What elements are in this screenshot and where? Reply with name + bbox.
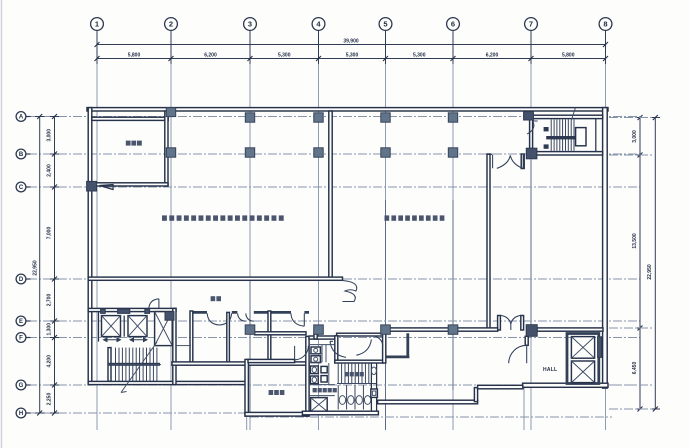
- room row bottom wall: [172, 362, 309, 365]
- svg-text:8: 8: [603, 20, 607, 29]
- core bottom wall: [88, 381, 245, 384]
- hatched shaft X box bottom: [311, 398, 328, 412]
- svg-text:H: H: [19, 411, 23, 417]
- svg-text:2,700: 2,700: [47, 294, 53, 307]
- machine room label 기계실: [126, 141, 142, 146]
- svg-text:5,800: 5,800: [562, 53, 575, 59]
- HALL bottom wall: [523, 383, 608, 387]
- duct oval: [371, 367, 376, 375]
- top overall dimension 39,900: [95, 38, 609, 49]
- TR stair west wall: [530, 119, 533, 149]
- elevator shaft outline: [567, 334, 599, 384]
- entry door arc right: [356, 339, 371, 355]
- svg-text:3,000: 3,000: [47, 129, 53, 142]
- toilet mid partition: [309, 363, 335, 385]
- vestibule top wall: [337, 333, 384, 336]
- elevator 2 sill: [130, 338, 147, 342]
- svg-text:2,250: 2,250: [47, 393, 53, 406]
- room partition east: [268, 311, 271, 363]
- toilet west basins: [311, 347, 320, 363]
- seam wall to core: [176, 345, 191, 347]
- TR stair inner top wall: [533, 115, 603, 118]
- vestibule inner door arc: [373, 336, 383, 347]
- svg-text:6,200: 6,200: [486, 53, 499, 59]
- building bottom wall mid: [378, 400, 478, 404]
- room door arc 3: [291, 313, 304, 326]
- svg-text:6: 6: [451, 20, 455, 29]
- elevator 1 X box: [102, 316, 121, 337]
- svg-text:6,200: 6,200: [204, 53, 217, 59]
- right room west wall: [487, 154, 490, 330]
- svg-text:G: G: [19, 383, 24, 389]
- svg-text:3,000: 3,000: [632, 130, 638, 143]
- TR stair arrow blobs: [544, 127, 549, 131]
- svg-text:22,950: 22,950: [647, 264, 653, 280]
- machine room right wall: [165, 111, 168, 186]
- TR stair mid landing dark bar: [546, 136, 576, 139]
- left segment dimension line: [50, 114, 59, 416]
- F wall mid segment: [458, 328, 498, 331]
- columns row EF: [245, 325, 537, 337]
- machine room bottom wall: [92, 183, 168, 186]
- elevator car upper X box: [571, 337, 594, 359]
- scan edge artifact line: [1, 0, 3, 448]
- HALL door arc: [509, 345, 527, 363]
- svg-text:A: A: [19, 115, 24, 121]
- svg-text:5,300: 5,300: [413, 53, 426, 59]
- F wall west segment: [384, 328, 449, 331]
- svg-text:3: 3: [248, 20, 252, 29]
- bottom wall east segment: [478, 385, 523, 389]
- elevator 1 sill: [104, 338, 121, 342]
- gongjo bottom wall: [245, 412, 309, 416]
- elevator car lower X box: [571, 361, 594, 383]
- room door arc 1: [207, 313, 231, 325]
- svg-text:5,800: 5,800: [128, 53, 141, 59]
- outer wall left: [88, 108, 92, 385]
- step wall vertical stub: [314, 334, 317, 339]
- svg-text:C: C: [19, 185, 24, 191]
- center stair treads: [338, 363, 369, 384]
- elevator door pocket dark bar: [598, 337, 602, 358]
- svg-text:13,500: 13,500: [632, 233, 638, 249]
- svg-text:39,900: 39,900: [343, 38, 359, 44]
- TR stair up arrow tip: [572, 108, 576, 120]
- right extension dash lines: [609, 118, 654, 410]
- room door arcs pair: [238, 313, 254, 321]
- double swing door symbol at D-wall opening: [343, 281, 357, 302]
- svg-text:22,950: 22,950: [33, 260, 39, 276]
- toilet west cluster partitions: [309, 345, 335, 396]
- TR stair landing rail rect: [576, 128, 586, 146]
- columns row B: [166, 148, 537, 159]
- gongjo west wall: [245, 359, 248, 416]
- core stair west rail: [108, 348, 111, 382]
- right segment dimension line 3,000/13,500/6,450: [632, 115, 645, 412]
- core top wall: [88, 308, 176, 311]
- gongjo top wall: [248, 359, 295, 362]
- svg-text:4,200: 4,200: [47, 355, 53, 368]
- svg-text:1: 1: [95, 20, 99, 29]
- elevator 2 X box: [128, 316, 147, 337]
- left overall dimension 22,950: [33, 114, 45, 416]
- machine room door leaf: [100, 185, 114, 190]
- core door arc: [149, 299, 159, 309]
- svg-text:5,300: 5,300: [278, 53, 291, 59]
- machine room door corner block: [87, 181, 97, 191]
- gongjo label 공조실: [269, 390, 285, 395]
- duct small box: [371, 389, 378, 397]
- vestibule west wall: [335, 336, 338, 363]
- toilet west mid fixtures: [310, 366, 318, 384]
- core stair mid dark bar: [108, 363, 160, 366]
- step wall grid4 to vestibule: [309, 336, 337, 339]
- grid bubbles 1-8: [91, 18, 104, 31]
- WC fixtures ovals: [339, 396, 371, 405]
- svg-text:2: 2: [169, 20, 173, 29]
- vertical grid lines 1-8: [97, 31, 606, 431]
- center stair mid line: [337, 383, 376, 385]
- service shaft dark block: [165, 312, 174, 321]
- top segment dimension labels: [128, 53, 575, 59]
- service shaft X box: [155, 312, 173, 346]
- core stair treads: [116, 348, 157, 382]
- stall partitions below stair: [338, 385, 371, 410]
- small room east of vestibule: [386, 333, 410, 357]
- TR stair door arc: [527, 121, 537, 134]
- corridor label 복도: [211, 296, 221, 301]
- columns row A: [166, 108, 533, 123]
- divider wall vertical: [329, 111, 332, 278]
- svg-text:D: D: [19, 277, 24, 283]
- machine room top wall: [92, 117, 168, 120]
- top segment dimension line: [95, 54, 609, 64]
- toilet block bottom wall: [302, 411, 378, 415]
- label room2 제1종 근린생활시설(기원): [385, 215, 445, 220]
- elevator door jamb blocks: [101, 309, 150, 313]
- gongjo door arc: [295, 346, 309, 360]
- horizontal grid lines A-H: [28, 117, 640, 431]
- right room top double door arcs: [493, 155, 524, 168]
- toilet west small fixtures: [321, 366, 327, 382]
- svg-text:7,000: 7,000: [47, 227, 53, 240]
- svg-text:E: E: [19, 319, 23, 325]
- TR stair inner east wall: [595, 119, 597, 152]
- duct shaft walls: [371, 363, 376, 412]
- right room bottom door jambs: [498, 316, 501, 331]
- TR stair bottom wall: [531, 152, 603, 155]
- svg-text:B: B: [19, 152, 24, 158]
- entry door arc left: [330, 341, 346, 357]
- right overall dimension 22,950: [647, 115, 660, 412]
- darker grid segments inside plan: [250, 160, 531, 430]
- F wall east segment: [537, 328, 603, 331]
- svg-text:2,400: 2,400: [47, 164, 53, 177]
- wall east of grid3 column: [255, 332, 306, 335]
- svg-text:HALL: HALL: [543, 367, 557, 373]
- vestibule east wall: [383, 333, 386, 363]
- svg-text:1,300: 1,300: [47, 323, 53, 336]
- TR stair treads: [551, 120, 574, 151]
- vestibule bottom wall: [335, 360, 384, 363]
- top grid stubs: [97, 31, 606, 64]
- D-row lower wall: [88, 277, 342, 280]
- core stair center line: [108, 364, 161, 366]
- svg-text:6,450: 6,450: [632, 362, 638, 375]
- outer wall right: [603, 108, 608, 389]
- room row top wall segments: [190, 311, 309, 314]
- toilet west counter lines: [309, 345, 326, 363]
- right room bottom double door arcs: [500, 315, 521, 330]
- svg-text:7: 7: [529, 20, 533, 29]
- label room1 제1종 근린생활시설(변경신청부분)·의원: [162, 215, 284, 220]
- gongjo east wall: [306, 336, 309, 416]
- left segment dimension labels: [47, 129, 53, 405]
- grid bubbles A-H: [16, 112, 30, 122]
- room partition mid: [227, 312, 230, 362]
- room partition west: [190, 311, 193, 363]
- bottom step vertical: [474, 388, 477, 402]
- svg-text:5: 5: [383, 20, 387, 29]
- toilet west label tiny: [313, 388, 337, 392]
- core stair direction arrow: [121, 342, 157, 393]
- svg-text:F: F: [19, 336, 23, 342]
- svg-text:5,300: 5,300: [346, 53, 359, 59]
- elevator lobby wall between: [99, 312, 125, 342]
- stairhall label tiny: [345, 372, 364, 376]
- HALL west wall below column: [525, 336, 528, 345]
- outer wall top: [87, 108, 608, 111]
- core east wall: [173, 308, 176, 384]
- right room top door jambs: [487, 153, 525, 155]
